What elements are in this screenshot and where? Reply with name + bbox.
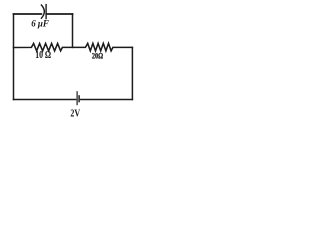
svg-text:2V: 2V bbox=[70, 108, 80, 119]
svg-text:20Ω: 20Ω bbox=[92, 50, 103, 60]
svg-text:6 μF: 6 μF bbox=[31, 18, 49, 28]
svg-text:10 Ω: 10 Ω bbox=[35, 49, 51, 60]
